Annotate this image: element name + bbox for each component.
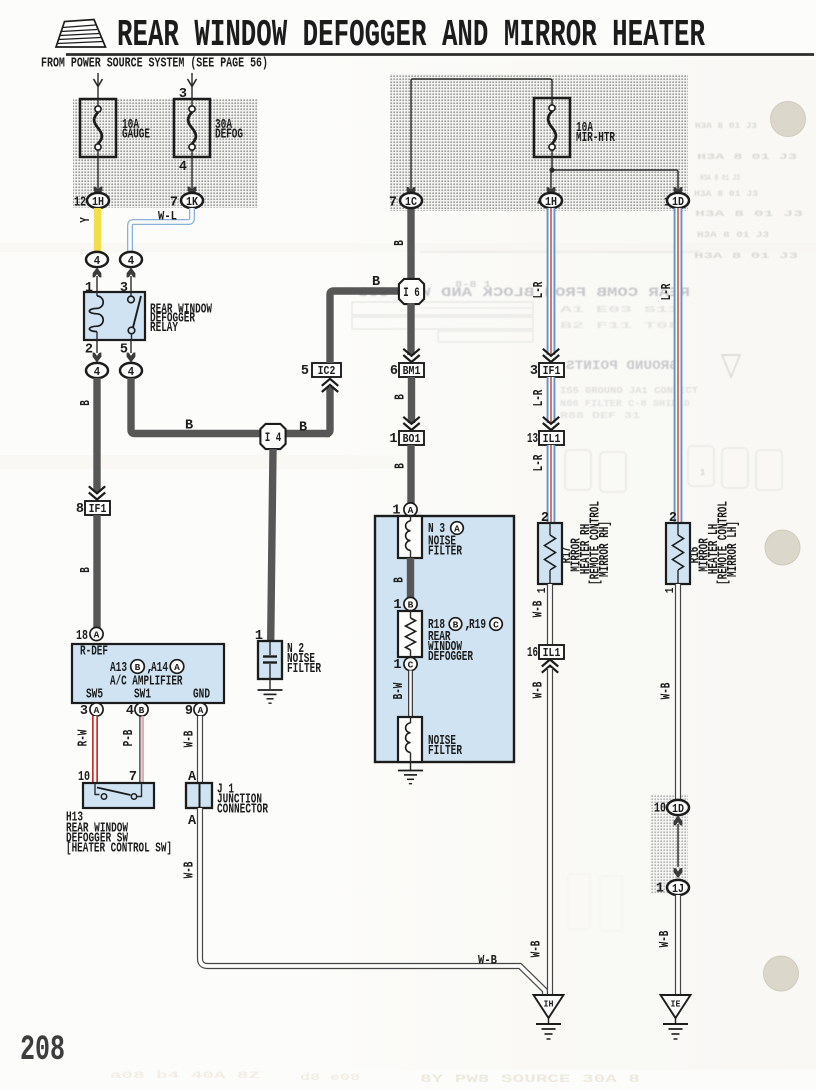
wire fuse to connector 1K: [191, 157, 193, 193]
svg-text:8-8 1: 8-8 1: [455, 280, 492, 290]
wire B B01 down to defogger unit: [407, 445, 414, 504]
noise filter (lower, inner box with coil): [398, 717, 422, 762]
svg-text:6: 6: [390, 364, 398, 379]
svg-text:4: 4: [128, 254, 134, 268]
wire Y (yellow): [94, 208, 101, 253]
svg-text:d8 e08: d8 e08: [300, 1072, 360, 1084]
svg-text:MIRROR RH]: MIRROR RH]: [598, 521, 613, 577]
ground under N2: [258, 689, 283, 691]
svg-text:A: A: [454, 524, 460, 535]
svg-text:RELAY: RELAY: [150, 321, 179, 336]
wire L-R 1D to R16: [674, 208, 683, 523]
defogger grid resistor R18/R19: [398, 611, 422, 657]
wire B relay pin5 to junction I4 (horizontal run): [131, 378, 330, 434]
bleed-through ghost text: [352, 122, 803, 931]
svg-text:IF1: IF1: [543, 364, 561, 378]
wire feed to 10A GAUGE fuse: [97, 73, 99, 99]
svg-text:9: 9: [185, 704, 193, 719]
svg-text:BM1: BM1: [403, 364, 421, 378]
svg-text:N06 FILTER C-8 SHIELD: N06 FILTER C-8 SHIELD: [560, 399, 691, 409]
svg-text:C: C: [493, 620, 499, 631]
svg-text:IC2: IC2: [318, 364, 336, 378]
bleed-through bottom band: [110, 1070, 641, 1086]
svg-text:BO1: BO1: [403, 432, 421, 446]
header rule: [66, 53, 814, 56]
svg-text:R88 DEF 31: R88 DEF 31: [560, 411, 641, 421]
wire 1D to 1J: [677, 824, 679, 867]
svg-text:[HEATER CONTROL SW]: [HEATER CONTROL SW]: [66, 842, 172, 857]
A/C amplifier box: [72, 644, 224, 703]
wire L-R IF1 to IL1: [547, 377, 556, 423]
pin 4 (B): [135, 703, 148, 716]
ground IE: [661, 995, 691, 1018]
hole punch middle: [765, 530, 800, 565]
wire W-B IL1 down to ground IH: [547, 668, 553, 995]
svg-text:MIRROR LH]: MIRROR LH]: [726, 521, 741, 577]
arrow into pin3 oval: [127, 268, 136, 278]
fuse 10A GAUGE: [80, 99, 116, 157]
svg-text:B: B: [393, 577, 408, 583]
wire W-B from GND pin: [197, 716, 203, 783]
svg-text:GROUND POINTS: GROUND POINTS: [565, 359, 678, 373]
wire R-W: [92, 716, 98, 783]
wire L-R 1H to IF1: [547, 208, 556, 355]
wire B inside defogger unit: [407, 558, 414, 598]
wire B-W inside defogger unit: [408, 671, 413, 718]
svg-text:P-B: P-B: [122, 730, 137, 747]
svg-text:R-DEF: R-DEF: [80, 645, 108, 660]
svg-text:R19: R19: [469, 618, 486, 633]
svg-text:A: A: [408, 505, 414, 516]
svg-text:Y: Y: [79, 217, 94, 223]
svg-text:L-R: L-R: [660, 283, 675, 300]
svg-text:I 6: I 6: [403, 286, 420, 300]
svg-text:SW5: SW5: [86, 688, 103, 703]
svg-text:IF1: IF1: [89, 502, 107, 516]
svg-text:I 4: I 4: [265, 431, 282, 445]
junction dot: [549, 167, 554, 172]
wire W-L: [130, 208, 192, 253]
connector 4 (right, relay pin 3): [120, 252, 142, 267]
svg-text:1H: 1H: [92, 195, 104, 209]
svg-text:FILTER: FILTER: [287, 662, 322, 677]
svg-text:H3A 8 01 J3: H3A 8 01 J3: [697, 231, 769, 240]
svg-text:B: B: [394, 463, 409, 469]
arrow into 1D: [674, 816, 683, 826]
svg-text:C: C: [408, 660, 414, 671]
wire W-B R17 to IL1: [547, 584, 553, 645]
svg-text:a08 b4 40A 8Z: a08 b4 40A 8Z: [110, 1070, 260, 1082]
svg-text:DEFOG: DEFOG: [215, 128, 243, 143]
junction I4: [260, 424, 285, 449]
svg-text:7: 7: [389, 196, 397, 211]
svg-text:W-B: W-B: [478, 953, 497, 968]
svg-text:A: A: [174, 662, 180, 673]
svg-text:W-L: W-L: [158, 209, 177, 224]
svg-text:H3A 8 01 J3: H3A 8 01 J3: [694, 252, 798, 261]
svg-text:B: B: [408, 600, 414, 611]
svg-text:FILTER: FILTER: [428, 744, 463, 759]
svg-text:W-B: W-B: [183, 862, 198, 879]
svg-text:2: 2: [85, 343, 93, 358]
svg-text:8: 8: [76, 502, 84, 517]
dotted fuse-block region top-right: [390, 74, 688, 211]
svg-text:IH: IH: [544, 999, 554, 1010]
svg-text:8Y PW8 SOURCE 30A 8: 8Y PW8 SOURCE 30A 8: [420, 1074, 641, 1086]
svg-text:MIR-HTR: MIR-HTR: [576, 131, 616, 146]
svg-text:B: B: [299, 421, 307, 436]
svg-text:REAR WINDOW DEFOGGER AND MIRRO: REAR WINDOW DEFOGGER AND MIRROR HEATER: [117, 14, 705, 57]
svg-text:W-B: W-B: [530, 941, 545, 958]
svg-text:A: A: [94, 705, 100, 716]
H13 defogger switch box: [83, 783, 154, 808]
svg-text:1K: 1K: [186, 195, 199, 209]
svg-text:3: 3: [80, 704, 88, 719]
svg-text:FILTER: FILTER: [428, 545, 463, 560]
svg-text:H3A 8 01 J3: H3A 8 01 J3: [697, 153, 797, 162]
svg-text:A1 E03 S11: A1 E03 S11: [560, 305, 681, 315]
fuse 30A DEFOG: [174, 99, 210, 157]
svg-text:16: 16: [527, 646, 538, 661]
wire feed to 30A DEFOG fuse: [191, 73, 193, 99]
svg-text:4: 4: [126, 704, 134, 719]
svg-text:1D: 1D: [672, 802, 684, 816]
svg-text:1J: 1J: [672, 882, 684, 896]
dotted region near 1D/1J connectors: [650, 794, 688, 894]
wire W-B R16 down to 1D: [675, 584, 681, 800]
svg-text:1D: 1D: [672, 195, 684, 209]
svg-text:H3A 8 01 J3: H3A 8 01 J3: [700, 174, 740, 183]
wire L-R IL1 to R17: [547, 445, 556, 523]
svg-text:1: 1: [700, 468, 706, 478]
wire relay pin2 to oval: [96, 340, 98, 353]
svg-text:GND: GND: [193, 688, 210, 703]
svg-text:DEFOGGER: DEFOGGER: [428, 650, 474, 665]
svg-text:W-B: W-B: [532, 601, 547, 618]
dotted fuse-block region top-left: [73, 99, 258, 208]
svg-text:3: 3: [530, 364, 538, 379]
rear window defogger assembly box: [375, 516, 514, 762]
svg-text:R-W: R-W: [77, 729, 92, 746]
svg-text:13: 13: [527, 432, 538, 447]
svg-text:A: A: [188, 814, 197, 829]
svg-text:L-R: L-R: [532, 389, 547, 406]
svg-text:H3A 8 01 J3: H3A 8 01 J3: [694, 190, 758, 199]
svg-text:1: 1: [393, 658, 401, 673]
wire B junction I4 down to noise filter N2: [271, 449, 273, 641]
svg-text:W-B: W-B: [532, 682, 547, 699]
wire B I6 down to BM1: [407, 303, 414, 355]
wire B connector 1C down to I6: [407, 208, 414, 281]
svg-text:5: 5: [301, 364, 309, 379]
wire junction to 1H: [550, 170, 552, 193]
svg-text:B: B: [139, 705, 145, 716]
wire relay pin5 to oval: [130, 340, 132, 353]
svg-text:IL1: IL1: [543, 432, 561, 446]
svg-text:18: 18: [76, 629, 88, 644]
svg-text:1: 1: [389, 432, 397, 447]
wire W-B 1J down to ground IE: [675, 895, 681, 995]
svg-text:4: 4: [94, 365, 100, 379]
wire B BM1 to B01: [408, 377, 415, 423]
wire B from I4 up to IC2: [326, 387, 330, 434]
svg-text:A: A: [94, 630, 100, 641]
svg-text:1H: 1H: [545, 195, 557, 209]
svg-text:IL1: IL1: [543, 646, 561, 660]
svg-text:W-B: W-B: [183, 731, 198, 748]
svg-text:B-W: B-W: [392, 682, 407, 699]
svg-text:B: B: [453, 620, 459, 631]
svg-text:10: 10: [654, 802, 666, 817]
logo rear-window icon: [56, 20, 106, 48]
pin 18 (A): [90, 627, 103, 640]
pin 9 (A): [194, 703, 207, 716]
wire B to A/C amplifier: [93, 515, 100, 628]
svg-text:L-R: L-R: [532, 281, 547, 298]
svg-text:12: 12: [74, 196, 86, 211]
mirror heater R16: [666, 523, 690, 584]
svg-text:CONNECTOR: CONNECTOR: [217, 803, 269, 818]
svg-text:SW1: SW1: [134, 688, 151, 703]
mirror heater R17: [538, 523, 562, 584]
ground under defogger unit: [410, 762, 412, 770]
svg-text:H3A 8 01 J3: H3A 8 01 J3: [695, 210, 803, 219]
svg-text:4: 4: [128, 365, 134, 379]
connector 4 (relay pin 2): [86, 363, 108, 378]
wire fuse bottom to junction dot: [551, 157, 553, 170]
svg-text:B: B: [79, 400, 94, 406]
noise filter N2: [258, 641, 282, 679]
svg-text:B: B: [393, 240, 408, 246]
svg-text:B: B: [79, 567, 94, 573]
wire P-B: [139, 716, 141, 783]
svg-text:L-R: L-R: [532, 454, 547, 471]
wire fuse to connector 1H: [97, 157, 99, 193]
ground IH: [534, 995, 564, 1018]
svg-text:IE: IE: [671, 999, 681, 1010]
svg-text:A: A: [198, 705, 204, 716]
svg-text:B: B: [135, 662, 141, 673]
relay: rear window defogger relay: [84, 292, 145, 340]
wire B from IC2 up and right to junction I6: [330, 291, 398, 363]
svg-text:H3A 8 01 J3: H3A 8 01 J3: [695, 122, 757, 131]
svg-text:FROM POWER SOURCE SYSTEM (SEE: FROM POWER SOURCE SYSTEM (SEE PAGE 56): [41, 57, 268, 72]
svg-text:B: B: [185, 419, 193, 434]
svg-text:208: 208: [20, 1030, 65, 1070]
fuse 10A MIR-HTR: [534, 98, 570, 157]
junction I6: [399, 279, 424, 304]
svg-text:4: 4: [179, 160, 187, 175]
junction connector J1: [186, 783, 212, 808]
arrow into pin1 oval: [93, 268, 102, 278]
svg-text:B: B: [394, 394, 409, 400]
svg-text:GAUGE: GAUGE: [122, 128, 150, 143]
svg-text:W-B: W-B: [658, 931, 673, 948]
pin 3 (A): [90, 703, 103, 716]
svg-text:1: 1: [656, 882, 664, 897]
connector 4 (left, relay pin 1): [86, 252, 108, 267]
connector 4 (relay pin 5): [120, 363, 142, 378]
svg-text:W-B: W-B: [660, 683, 675, 700]
svg-text:B2 F11 T08: B2 F11 T08: [560, 321, 680, 331]
noise filter N3 (inner box with coil): [398, 516, 422, 558]
svg-text:B: B: [372, 275, 380, 290]
hole punch top: [771, 102, 806, 137]
wire W-B from J1 to ground IH: [200, 808, 545, 995]
hole punch bottom: [764, 956, 799, 991]
svg-text:4: 4: [94, 254, 100, 268]
svg-text:1C: 1C: [405, 195, 417, 209]
wire junction to 1D: [552, 170, 678, 193]
wire from fuse top loop to 1C: [411, 79, 552, 193]
wire B relay pin2 down: [93, 378, 100, 492]
